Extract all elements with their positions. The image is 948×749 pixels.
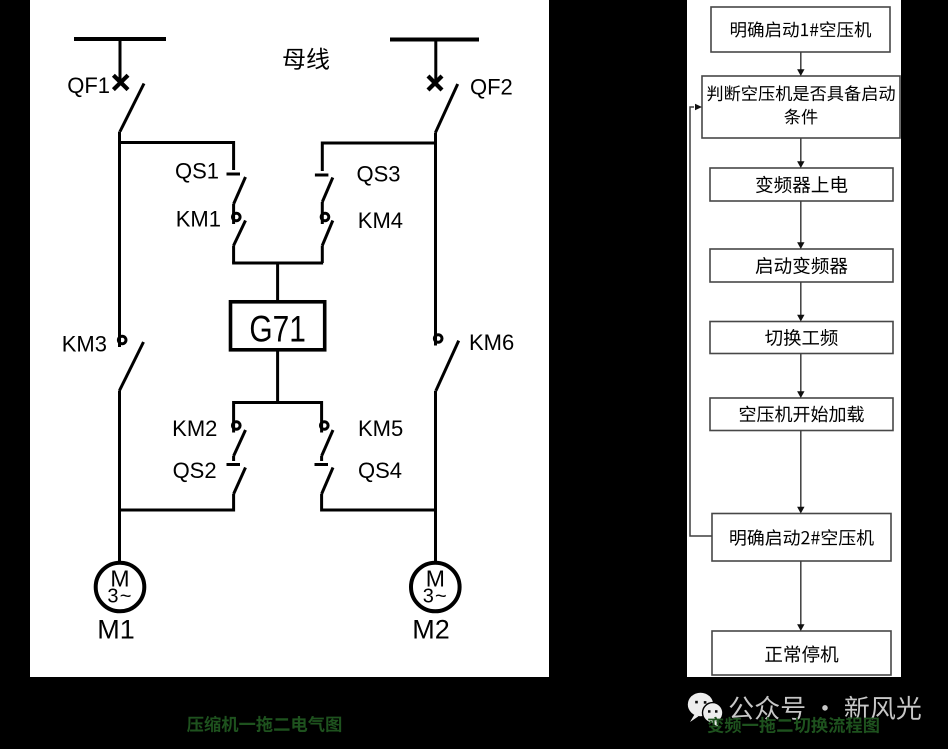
flowchart feedback arrowhead (695, 104, 702, 110)
disconnector QS3: contact tick (315, 174, 329, 177)
svg-text:QS1: QS1 (175, 159, 219, 184)
disconnector QS4: contact tick (315, 463, 329, 466)
contactor KM3: hook contact (118, 336, 126, 344)
footer label 公众号·新风光 (730, 696, 921, 720)
disconnector QS1: contact tick (227, 173, 241, 176)
contactor KM5: hook contact (321, 422, 329, 430)
motor M2: circle (411, 563, 460, 612)
flowchart box4 text: 启动变频器 (756, 257, 848, 274)
wire: left junction horizontal (QF1 node to QS1) (120, 141, 234, 144)
flowchart box8: 正常停机 (712, 631, 891, 675)
motor M1: circle (96, 563, 145, 612)
flowchart arrow: box3 to box4 (800, 201, 802, 243)
breaker QF1: blade (120, 84, 144, 132)
wire: KM4 down to V junction (321, 246, 324, 264)
wire: KM3 down to bottom junction (118, 391, 121, 512)
contactor KM6: hook contact (434, 335, 442, 343)
svg-text:KM3: KM3 (62, 332, 107, 357)
wire: QS3 to KM4 (321, 202, 324, 213)
contactor KM2: hook contact (233, 422, 241, 430)
breaker QF2: blade (435, 84, 457, 133)
svg-text:QS4: QS4 (358, 458, 402, 483)
contactor KM4: blade (322, 221, 333, 246)
wire: bottom junction horizontal right (322, 509, 437, 512)
wire: QS1 stub (232, 141, 235, 170)
svg-text:M2: M2 (412, 615, 450, 645)
disconnector QS4: blade (322, 468, 333, 495)
disconnector QS1: blade (234, 177, 246, 204)
wire: QS1 to KM1 (232, 204, 235, 214)
flowchart box2 text: 条件 (784, 109, 817, 125)
svg-text:KM1: KM1 (176, 207, 221, 232)
wire: KM2 to QS2 (232, 456, 235, 461)
wire: KM5 to QS4 (320, 456, 323, 461)
flowchart box3: 变频器上电 (710, 168, 893, 201)
disconnector QS2: contact tick (227, 463, 241, 466)
wechat icon: large bubble eyes (695, 701, 698, 704)
svg-text:QF1: QF1 (67, 73, 110, 98)
wire: left outer vertical (QF1 to KM3) (118, 132, 121, 335)
flowchart arrow: box1 to box2 (800, 52, 802, 70)
flowchart box6 text: 空压机开始加载 (740, 406, 864, 423)
contactor KM4: hook contact (321, 213, 329, 221)
svg-text:3~: 3~ (107, 586, 132, 608)
contactor KM1: blade (234, 221, 246, 246)
svg-text:KM6: KM6 (469, 330, 514, 355)
wire: G71 down to lower junction (276, 350, 279, 404)
breaker QF1: drop wire from bus (119, 39, 122, 82)
label 母线 (busbar) (283, 48, 329, 70)
wechat icon: small bubble (703, 703, 723, 723)
svg-text:KM2: KM2 (172, 416, 217, 441)
busbar right segment (390, 38, 479, 42)
contactor KM2: blade (234, 430, 246, 456)
svg-text:M1: M1 (97, 615, 135, 645)
flowchart box2: 判断空压机是否具备启动 (702, 76, 900, 138)
svg-text:G71: G71 (249, 307, 306, 349)
breaker QF2: X contact (428, 76, 442, 90)
wire: M1 feed (118, 510, 121, 563)
wire: QS4 down to bottom junction (320, 494, 323, 512)
svg-text:3~: 3~ (423, 586, 448, 608)
flowchart box6: 空压机开始加载 (710, 398, 893, 431)
breaker QF1: X contact (113, 75, 128, 89)
contactor KM6: blade (436, 341, 459, 391)
svg-text:KM4: KM4 (358, 208, 403, 233)
svg-text:QF2: QF2 (470, 75, 513, 100)
wire: M2 feed (434, 510, 437, 563)
disconnector QS3: blade (322, 178, 333, 203)
flowchart feedback wire: box7 to box2 (690, 107, 712, 536)
flowchart arrow: box6 to box7 (800, 431, 802, 508)
wire: center drop to G71 (276, 263, 279, 302)
flowchart box3 text: 变频器上电 (756, 176, 847, 193)
left schematic panel background (30, 0, 549, 677)
flowchart arrow: box2 to box3 (800, 138, 802, 162)
svg-text:QS3: QS3 (357, 162, 401, 187)
wire: lower junction horizontal (234, 401, 322, 404)
contactor KM1: hook contact (233, 213, 241, 221)
flowchart box1 text: 明确启动1#空压机 (731, 21, 871, 37)
flowchart box5: 切换工频 (710, 322, 893, 354)
wire: KM2 stub (232, 401, 235, 421)
caption 压缩机一拖二电气图 (green) (187, 716, 341, 732)
busbar left segment (74, 37, 166, 41)
flowchart arrow: box4 to box5 (800, 282, 802, 316)
caption 变频一拖二切换流程图 (green) (708, 717, 879, 734)
contactor KM3: blade (120, 342, 144, 391)
breaker QF2: drop wire from bus (434, 40, 437, 84)
flowchart arrow: box5 to box6 (800, 354, 802, 393)
flowchart box7 text: 明确启动2#空压机 (730, 529, 873, 546)
svg-text:KM5: KM5 (358, 416, 403, 441)
wechat icon: large bubble (688, 693, 713, 717)
svg-text:QS2: QS2 (173, 458, 217, 483)
wire: QS2 down to bottom junction (232, 494, 235, 512)
wechat icon: small bubble eyes (708, 710, 711, 713)
wire: right junction horizontal (QS3 node to QF2) (322, 142, 436, 145)
wire: bottom junction horizontal left (118, 509, 234, 512)
flowchart arrow: box7 to box8 (800, 561, 802, 625)
wire: KM1 down to V junction (232, 246, 235, 264)
wire: V junction horizontal (232, 262, 323, 265)
wire: QS3 stub (321, 142, 324, 172)
flowchart box8 text: 正常停机 (765, 645, 838, 662)
right flowchart panel background (687, 0, 901, 677)
wire: right outer vertical (QF2 to KM6) (434, 133, 437, 333)
wire: KM6 down to bottom junction (434, 391, 437, 512)
wire: KM5 stub (320, 401, 323, 421)
flowchart box2 text: 判断空压机是否具备启动 (707, 85, 894, 101)
flowchart box7: 明确启动2#空压机 (712, 514, 891, 562)
flowchart box5 text: 切换工频 (765, 329, 837, 346)
flowchart box4: 启动变频器 (710, 249, 893, 282)
disconnector QS2: blade (234, 468, 246, 495)
inverter G71: box (231, 302, 325, 350)
contactor KM5: blade (322, 430, 333, 456)
flowchart box1: 明确启动1#空压机 (711, 7, 890, 52)
